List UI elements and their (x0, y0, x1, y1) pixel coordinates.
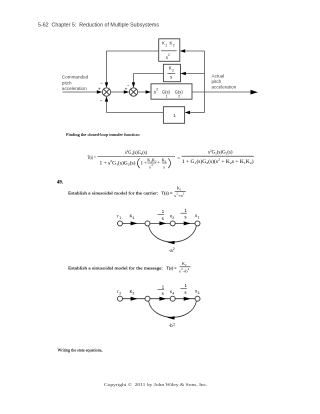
svg-text:+: + (157, 161, 160, 166)
node x3 (195, 296, 200, 301)
svg-text:1 + G1(s)G2(s)(s2 + K2s + K1K2: 1 + G1(s)G2(s)(s2 + K2s + K1K2) (182, 158, 254, 165)
wire: tap to block 1 (189, 112, 205, 114)
branch x4 to x3, gain 1/s (175, 298, 195, 300)
node x2 (170, 221, 175, 226)
svg-text:s: s (170, 74, 172, 79)
branch n2 to x2, gain 1/s (150, 222, 170, 224)
svg-text:1: 1 (119, 216, 121, 220)
svg-text:2: 2 (172, 216, 174, 220)
svg-text:2: 2 (185, 263, 187, 267)
label 1/s (first integrator) (158, 209, 165, 221)
svg-text:acceleration: acceleration (62, 86, 87, 91)
svg-text:2: 2 (133, 291, 135, 295)
node n2 (145, 221, 150, 226)
wire: feedback tap vertical (204, 51, 206, 113)
svg-text:s2G1(s)G2(s): s2G1(s)G2(s) (125, 149, 147, 156)
wire: plant output (192, 91, 251, 93)
block G: s^2 G1(s) G2(s) (151, 84, 192, 99)
summing junction S1 (102, 88, 110, 96)
node x4 (170, 296, 175, 301)
svg-text:1: 1 (185, 208, 188, 213)
svg-text:1: 1 (185, 283, 188, 288)
svg-text:s: s (162, 291, 164, 296)
svg-text:2: 2 (173, 247, 175, 251)
block K2/s (163, 64, 180, 81)
svg-text:Actual: Actual (212, 73, 225, 78)
svg-text:2: 2 (119, 291, 121, 295)
wire: block K1K2/s2 to S1 top (107, 51, 159, 84)
output label Actual pitch acceleration (212, 73, 237, 89)
svg-text:2: 2 (151, 163, 153, 167)
wire: tap to block K2/s (185, 73, 205, 75)
sign - at S2 top (127, 84, 129, 86)
fraction 2 bar (182, 155, 254, 157)
svg-text:T(s) =: T(s) = (161, 191, 173, 196)
wire: S1 to S2 (111, 91, 124, 93)
sign - at S1 bottom (100, 100, 102, 102)
wire: tap to block K1K2/s2 (185, 50, 205, 52)
svg-text:1: 1 (180, 187, 182, 191)
svg-text:1 + s2G1(s)G2(s): 1 + s2G1(s)G2(s) (100, 159, 136, 166)
svg-text:1 +: 1 + (141, 161, 148, 166)
svg-text:Writing the state equations,: Writing the state equations, (58, 348, 103, 354)
branch m2 to x4, gain 1/s (150, 298, 170, 300)
label 1/s (second integrator) (180, 208, 187, 220)
svg-text:Finding the closed-loop transf: Finding the closed-loop transfer functio… (66, 132, 140, 137)
big paren ) (168, 158, 170, 168)
svg-text:1: 1 (162, 209, 165, 214)
svg-text:1: 1 (133, 216, 135, 220)
svg-text:T(s) =: T(s) = (87, 156, 96, 161)
svg-text:pitch: pitch (212, 79, 222, 84)
sign - at S1 top (101, 82, 103, 84)
svg-text:1: 1 (173, 113, 176, 118)
sign + at S1 input (98, 88, 100, 90)
svg-text:1: 1 (198, 216, 200, 220)
svg-text:1: 1 (162, 284, 165, 289)
fraction 1 denominator (100, 158, 171, 170)
svg-text:3: 3 (198, 291, 200, 295)
label 1/s (second integrator) (180, 283, 187, 295)
svg-text:=: = (177, 156, 180, 161)
sign + at S2 input (125, 88, 127, 90)
feedback branch -a^2 from x1 to n2 (149, 226, 197, 243)
fraction 1 bar (97, 156, 174, 158)
node r2 (118, 296, 123, 301)
block K1K2/s2 (159, 39, 180, 62)
svg-text:2: 2 (173, 322, 175, 326)
svg-text:5-62 Chapter 5: Reduction of: 5-62 Chapter 5: Reduction of Multiple Su… (38, 23, 160, 29)
wire: block K2/s to S2 top (134, 74, 164, 85)
summing junction S2 (129, 88, 137, 96)
svg-text:2: 2 (183, 192, 185, 196)
svg-text:T(s) =: T(s) = (166, 266, 177, 271)
carrier fraction K1/(s^2+a^2) (174, 185, 186, 198)
svg-text:Commanded: Commanded (62, 75, 89, 80)
svg-text:Establish a sinusoidal model f: Establish a sinusoidal model for the car… (68, 191, 158, 196)
feedback branch -b^2 from x3 to m2 (149, 301, 197, 318)
input label Commanded pitch acceleration (62, 75, 89, 92)
branch x2 to x1, gain 1/s (175, 222, 195, 224)
svg-text:1: 1 (166, 94, 168, 98)
node r1 (118, 221, 123, 226)
svg-text:s: s (184, 290, 186, 295)
svg-text:2: 2 (172, 69, 174, 73)
svg-text:2: 2 (168, 53, 170, 57)
svg-text:1: 1 (165, 44, 167, 48)
svg-text:s2G1(s)G2(s): s2G1(s)G2(s) (208, 148, 233, 155)
block unity feedback "1" (163, 107, 184, 124)
branch r1 to n2, gain K1 (123, 222, 146, 224)
svg-text:acceleration: acceleration (212, 85, 237, 90)
label 1/s (first integrator) (158, 284, 165, 296)
svg-text:2: 2 (188, 267, 190, 271)
svg-text:2: 2 (178, 94, 180, 98)
svg-text:2: 2 (173, 44, 175, 48)
page header (38, 23, 160, 29)
wire: input to summer S1 (63, 91, 99, 93)
node m2 (145, 296, 150, 301)
message fraction K2/(s^2+b^2) (179, 261, 191, 274)
svg-text:s: s (184, 215, 186, 220)
svg-text:Establish a sinusoidal model f: Establish a sinusoidal model for the mes… (68, 266, 163, 271)
svg-text:s: s (163, 164, 165, 169)
svg-text:4: 4 (172, 291, 174, 295)
wire: block 1 to S1 bottom (107, 100, 164, 113)
svg-text:s: s (162, 216, 164, 221)
svg-text:49.: 49. (57, 180, 63, 185)
svg-text:2: 2 (156, 87, 158, 91)
big paren ( (137, 158, 139, 168)
svg-text:pitch: pitch (62, 80, 72, 85)
node x1 (195, 221, 200, 226)
wire: S2 to plant block (138, 91, 146, 93)
branch r2 to m2, gain K2 (123, 298, 146, 300)
svg-text:Copyright © 2011 by John Wile: Copyright © 2011 by John Wiley & Sons, I… (104, 382, 208, 388)
